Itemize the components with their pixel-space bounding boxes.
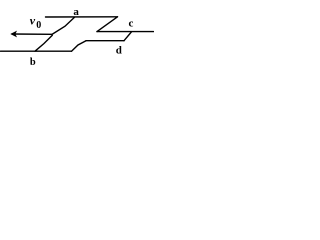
svg-text:a: a xyxy=(73,6,79,18)
svg-text:c: c xyxy=(129,18,134,30)
step edge from b-surface up to d-surface xyxy=(72,41,87,52)
step edge from d-surface up to c-surface xyxy=(124,32,132,41)
svg-text:d: d xyxy=(116,45,122,57)
slip-plane trace from b up to arrow junction xyxy=(35,35,52,51)
velocity arrow shaft v0 xyxy=(12,33,52,35)
middle surface line c xyxy=(97,31,154,33)
step edge from a-surface down to c-surface xyxy=(97,17,118,32)
svg-text:b: b xyxy=(30,57,36,68)
bottom surface line b xyxy=(1,50,72,52)
dislocation line from arrow junction up to a xyxy=(52,17,75,34)
top surface line a xyxy=(46,16,118,18)
svg-text:0: 0 xyxy=(36,20,41,31)
arrowhead of v0 arrow xyxy=(10,31,17,38)
svg-text:v: v xyxy=(30,13,36,27)
background xyxy=(0,0,154,73)
lower right surface line d xyxy=(86,40,124,42)
